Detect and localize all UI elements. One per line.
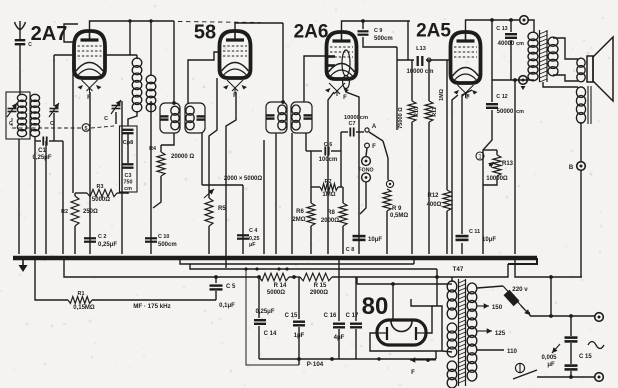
svg-text:250Ω: 250Ω [83,209,98,215]
wire C1 to grid return [49,140,63,142]
svg-text:C3: C3 [125,173,132,179]
junction bus [149,256,152,259]
capacitor C14 [254,320,266,324]
wire R11 down to bus [428,122,430,254]
wire C7 left [341,131,348,133]
wire to transformer HV [432,306,442,351]
junction bus [289,256,292,259]
wire HV bottom link [442,351,452,352]
junction bus [341,256,344,259]
switch lever line [513,370,537,379]
junction screen tap [128,19,131,22]
svg-text:1MΩ: 1MΩ [439,88,445,100]
potentiometer R9 [383,189,391,211]
wire 58 plate into IF2 [282,23,284,102]
wire C12 to R13 chain [483,110,492,254]
resistor R8 [339,203,347,226]
inductor field coil [576,87,585,123]
svg-text:R11: R11 [432,107,438,117]
phono jack 2 [362,173,371,182]
junction C13 [509,18,513,22]
wire 2A5 plate line [466,20,520,32]
wire fuse to line terminal [530,315,595,317]
terminal line 1 [595,313,604,322]
junction bus [357,256,360,259]
wire R5 to bus [208,226,210,254]
svg-text:C 12: C 12 [496,94,507,100]
svg-text:0,1μF: 0,1μF [219,303,235,309]
svg-text:1MΩ: 1MΩ [322,192,335,198]
output transformer core [540,30,548,82]
wire C17 bottom [355,329,357,359]
wire IF2 trimmer to diode [305,133,307,151]
inductor T47 HV winding [447,281,457,319]
resistor R15 [300,273,332,281]
wire to field coil [543,82,578,87]
wire line cap mid [570,343,572,364]
capacitor IF1 primary tuning [160,116,169,119]
capacitor C2 [84,238,96,241]
power transformer core [459,279,466,386]
junction circle L13 [427,58,431,62]
wire C13 top [510,20,512,32]
junction F line [426,358,430,362]
junction heater rail [244,267,247,270]
variable capacitor C (tuning gang 1) [8,109,17,112]
svg-text:5000Ω: 5000Ω [92,197,110,203]
svg-text:R4: R4 [149,146,156,152]
svg-text:50000: 50000 [497,109,514,115]
svg-text:80: 80 [362,293,389,320]
svg-text:R12: R12 [427,193,439,199]
capacitor L13 coupling [418,56,423,66]
svg-text:C 17: C 17 [346,313,359,319]
svg-text:0,5MΩ: 0,5MΩ [390,213,408,219]
wire Cp8 to C3 [127,134,129,163]
wire 2A5 cathode down [462,90,472,234]
arrow R13 wiper [488,162,494,168]
svg-text:R 9: R 9 [392,206,402,212]
svg-text:58: 58 [194,22,216,44]
svg-text:C 9: C 9 [374,28,382,34]
wire 80 right plate [411,299,432,333]
arrow variable cap 1 [7,103,17,117]
svg-text:75000 Ω: 75000 Ω [398,107,404,129]
tap wire 220 [477,286,503,288]
svg-text:C 4: C 4 [249,228,257,234]
wire antenna coil secondary down [34,136,36,254]
pentode tube 58 [220,31,251,78]
wire R3 left [75,192,87,194]
capacitor C9 [358,31,369,34]
resistor R2 [71,196,79,226]
wire A line [492,79,534,81]
wire screen tap [129,21,131,55]
junction bus [71,256,74,259]
wire C4 down to bus [242,185,244,254]
junction bus [427,256,430,259]
terminal B+ [520,16,529,25]
wire plate line into IF1 [173,21,175,103]
capacitor line filter b [565,366,578,370]
junction bus [314,256,317,259]
heater rail 2 [190,264,437,269]
svg-text:500cm: 500cm [374,36,393,42]
svg-text:2000Ω: 2000Ω [321,218,339,224]
variable capacitor C (tuning gang 2) [50,109,59,112]
wire phono down join [360,182,366,214]
wire rail to field coil return [515,258,582,277]
wire to C6 [306,150,311,152]
svg-text:5000Ω: 5000Ω [267,290,285,296]
svg-text:10μF: 10μF [482,237,496,243]
capacitor C15 filter [293,322,305,326]
svg-text:0,005: 0,005 [541,355,557,361]
wire R2 top [74,193,76,196]
IF2 primary loop [266,102,287,133]
field coil core [588,86,591,124]
capacitor C16 [333,324,345,328]
capacitor line filter a [565,338,578,342]
capacitor C11 [456,236,469,240]
junction tickler [149,19,152,22]
junction bus [159,256,162,259]
wire IF1 primary bottom [161,133,174,145]
wire C13 down [510,40,512,80]
wire C17 top [355,277,357,321]
inductor T47 primary winding [467,283,477,381]
inductor T47 rectifier filament winding [447,323,457,357]
switch contact A [365,128,369,132]
wire 2A6 plate line [342,21,411,32]
junction bus [270,256,273,259]
wire C5 top [215,277,217,283]
wire secondary top to voice coil [553,38,578,59]
svg-text:R10: R10 [414,107,420,117]
svg-text:T47: T47 [453,266,464,273]
speaker [587,37,613,101]
junction bus [326,256,329,259]
inductor output transformer secondary [548,37,558,76]
wire gang2 down [53,113,55,141]
junction bus [450,256,453,259]
resistor R12 [443,190,451,211]
junction bus [44,256,47,259]
wire to 2A7 grid [54,54,74,56]
wire A line down to bus [514,80,516,254]
gang coupling dashed line [12,126,114,128]
wire R10 down to bus [411,122,413,254]
junction bus [262,256,265,259]
wire C14 top [258,277,260,318]
capacitor C6 [325,147,328,156]
svg-text:R 15: R 15 [314,283,327,289]
wire rail to rectifier filament [436,269,438,306]
svg-text:R5: R5 [218,206,226,212]
capacitor C4 [237,235,249,238]
wire gang2 up to 2A7 grid [53,60,55,106]
marker A [521,86,526,90]
arrow fuse end [521,306,530,315]
inductor IF1 primary [171,106,179,130]
wire primary bottom [533,79,535,81]
wire C9 top [362,21,364,29]
capacitor C13 [505,34,517,38]
inductor IF2 secondary [292,105,300,130]
svg-text:R1: R1 [78,291,85,297]
svg-text:cm: cm [516,41,524,47]
junction line cap bottom [569,375,573,379]
wire to L13 [397,59,414,61]
junction bus [445,256,448,259]
svg-text:0,25μF: 0,25μF [98,242,117,248]
wire C16 top [338,258,340,321]
bottom rail [259,358,436,360]
wire R14 to R15 [289,276,300,278]
junction C5 rail [214,275,218,279]
junction bus [88,256,91,259]
junction bus [410,256,413,259]
capacitor C17 [350,324,362,328]
HV wire tap [356,277,358,284]
svg-text:C 10: C 10 [158,234,169,240]
inductor T47 heater winding [447,361,457,388]
variable capacitor C (osc gang) [112,106,121,109]
svg-text:B: B [569,165,574,171]
capacitor C8 [353,236,366,240]
wire T47 top [451,277,453,282]
arrow osc gang [111,100,121,114]
capacitor C3 [123,164,134,167]
heater rail 1 [180,258,414,264]
wire gang1 to ground bus [18,139,20,254]
wire R7 right [338,186,343,188]
svg-text:R 14: R 14 [274,283,287,289]
wire 2A7 plate to IF1 [90,21,175,31]
svg-text:2A5: 2A5 [416,21,451,42]
switch contact F [365,143,370,148]
AC sine symbol [588,342,604,349]
arrow variable cap 2 [49,103,59,117]
wire osc coil top [136,55,138,59]
svg-text:C 11: C 11 [469,229,480,235]
IF2 secondary loop [291,102,312,133]
capacitor IF1 secondary tuning [197,116,206,119]
wire C15 top [298,277,300,319]
wire C6 junction down [310,151,312,203]
wire R11 top [428,60,430,101]
junction heater rail [277,267,280,270]
resistor R4 [157,152,165,176]
wire 75000 column [396,47,398,130]
junction line a [549,314,553,318]
ground symbol [19,258,28,272]
wire F to phono [366,148,367,156]
resistor R14 [259,273,289,281]
wire C16 bottom [338,329,340,359]
antenna coil box [6,92,30,139]
wire join [298,359,300,365]
wire to output transformer [528,20,534,33]
wire osc coil bottom [128,111,137,126]
tap wire 110 [477,349,504,351]
svg-text:MF · 175 kHz: MF · 175 kHz [133,303,170,310]
wire bus end step [508,258,537,264]
wire R13 top [496,150,498,155]
wire IF1 to R4 [160,145,162,152]
wire R8 top [342,187,344,203]
wire R10 top [411,60,413,101]
junction bus [224,256,227,259]
ground bus [13,256,537,261]
wire C11 to bus [461,243,463,254]
gang stem varcap1 [11,118,13,128]
svg-text:F: F [372,144,376,150]
svg-text:0,25μF: 0,25μF [32,155,51,161]
junction bus [304,256,307,259]
terminal field B [577,162,586,171]
svg-text:5: 5 [85,126,88,132]
inductor IF1 secondary [186,106,194,130]
HV wire [357,283,448,285]
svg-text:C 15: C 15 [285,313,298,319]
svg-text:F: F [343,95,347,101]
AVC rail right to bus end [332,264,508,277]
wire C9 down and over [363,37,397,47]
potentiometer R13 [493,155,501,176]
junction C9 [361,19,365,23]
wire R3 right [117,192,128,194]
wire to 80 left plate [392,284,394,320]
wire 80 filament left [370,333,442,351]
IF1 secondary loop [185,103,205,133]
wire C6 to C7 node [331,150,341,152]
junction heater rail [285,267,288,270]
svg-text:cm: cm [124,186,132,192]
arrow F takeoff [410,357,436,362]
wire C14 bottom [258,326,260,359]
terminal line 2 [595,373,604,382]
svg-text:C 13: C 13 [496,26,507,32]
wire 220 to rail [550,277,552,316]
marker circle 1 [476,152,484,160]
wire to line terminal 2 [537,376,595,378]
wire R13 bottom [483,176,497,185]
svg-text:C 8: C 8 [346,247,354,253]
padder box [120,126,138,192]
svg-text:C 15: C 15 [579,354,592,360]
wire R12 to bus [446,211,448,254]
wire R9 top [387,158,389,180]
junction line b [569,314,573,318]
svg-text:150: 150 [492,304,503,311]
junction bottom rail [297,357,301,361]
2A6 diode plates [328,57,335,66]
filament 2A6 [325,83,349,96]
wire R9 to bus [386,211,388,254]
wire 58 plate to IF2 [235,23,283,31]
svg-text:R13: R13 [502,161,514,167]
inductor oscillator tickler L2 [146,75,156,112]
rectifier tube 80 [377,320,426,345]
wire field coil down [580,122,582,162]
svg-text:500cm: 500cm [158,242,177,248]
junction IF2 top [281,100,285,104]
capacitor Cpa (antenna series) [15,40,26,44]
resistor R5 [205,198,213,226]
junction bus [481,256,484,259]
wire C6 left link [311,150,322,152]
junction R14 R15 [292,275,296,279]
wire field coil to rectifier [580,170,582,277]
wire osc gang stem [115,112,117,124]
wire R8 to bus [342,226,344,254]
svg-text:cm: cm [516,109,524,115]
wire C3 to cathode node [127,192,129,194]
svg-text:μF: μF [547,362,555,368]
svg-text:C1: C1 [38,148,46,154]
wire 2A5 heater down [452,95,458,254]
svg-text:110: 110 [507,348,518,355]
wire 2A6 cathode down [346,88,359,254]
capacitor C7 [350,128,353,137]
filament 2A7 [78,80,102,93]
resistor R11 [425,101,433,122]
wire C5 bottom [215,291,217,300]
svg-text:40000: 40000 [498,41,515,47]
wire IF2 primary return [275,133,277,254]
terminal A [519,76,528,85]
resistor R6 [307,203,315,226]
tap arrow 150 [477,303,489,308]
wire IF2 secondary bottom [291,133,293,254]
wire R6 to bus [310,226,312,254]
wire to R12 [446,60,448,190]
svg-text:μF: μF [249,242,256,248]
wire HV top link [448,283,452,285]
capacitor C10 [145,238,157,241]
capacitor IF2 secondary tuning [304,115,313,118]
dashed line top [178,22,260,23]
svg-text:0,25μF: 0,25μF [255,309,274,315]
wire C1 junction down [45,141,47,254]
svg-text:2A6: 2A6 [294,22,329,43]
svg-text:2A7: 2A7 [31,23,68,45]
wire 2A7 grid shield step [64,24,78,42]
wire IF1 secondary bottom [201,133,203,185]
svg-text:2900Ω: 2900Ω [310,290,328,296]
svg-text:125: 125 [495,330,506,337]
filament 58 [223,80,247,93]
wire 58 cathode down [209,78,217,198]
junction bus [32,256,35,259]
wire R1 to C5 [92,299,216,301]
resistor R1 [68,297,92,304]
junction 80 plate feed [391,282,395,286]
svg-text:R6: R6 [296,209,304,215]
resistor R10 [408,101,416,122]
junction bus [120,256,123,259]
junction bus [52,256,55,259]
wire osc tickler up [150,21,152,76]
svg-text:0,15MΩ: 0,15MΩ [73,305,95,311]
svg-text:10μF: 10μF [368,237,382,243]
phono jack 1 [362,157,371,166]
svg-text:R2: R2 [61,209,68,215]
junction bottom rail 2 [330,357,334,361]
wire IF2 area down [263,140,265,254]
svg-text:220 ν: 220 ν [512,286,528,293]
